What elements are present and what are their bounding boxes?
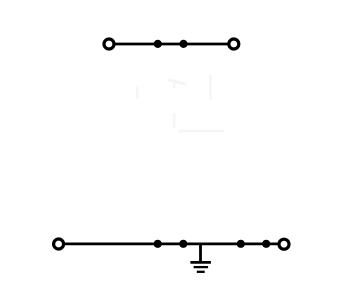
wire: top rail [109,43,234,46]
terminal: top-left clamp contact (open circle) [104,39,114,49]
node: bottom rail junction dot 4 [262,240,270,248]
wire: bottom rail [59,243,284,246]
node: top rail junction dot 2 [179,40,187,48]
terminal: top-right clamp contact (open circle) [229,39,239,49]
ground symbol bar 2 [194,266,209,268]
wire: ground tap vertical [199,244,202,263]
node: bottom rail junction dot 3 [237,240,245,248]
ground symbol bar 1 [190,261,211,264]
node: top rail junction dot 1 [154,40,162,48]
terminal: bottom-left clamp contact (open circle) [54,239,64,249]
ghost watermark strokes [137,75,224,131]
node: bottom rail junction dot 1 [154,240,162,248]
ground symbol bar 3 [197,271,205,273]
terminal: bottom-right clamp contact (open circle) [279,239,289,249]
node: bottom rail junction dot 2 [179,240,187,248]
